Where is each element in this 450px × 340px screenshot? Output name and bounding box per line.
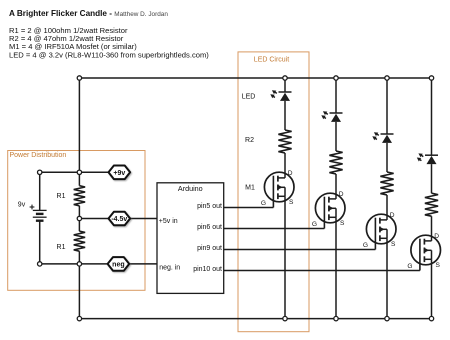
svg-text:pin10 out: pin10 out [193, 266, 222, 273]
resistor R1 (lower) [57, 231, 86, 251]
svg-text:pin5 out: pin5 out [197, 203, 222, 210]
svg-text:D: D [288, 170, 293, 177]
Arduino U1 [157, 183, 224, 294]
svg-text:-4.5v: -4.5v [111, 216, 127, 223]
node +9v tag [109, 166, 131, 180]
svg-text:G: G [407, 263, 412, 270]
LED LED3 [372, 132, 393, 143]
parts list text [9, 26, 209, 60]
node branch 2 top junction [334, 76, 338, 80]
MOSFET M1 (branch 1) [245, 170, 294, 207]
wire branch 2 LED cathode to R2 [335, 122, 337, 151]
node neg rail / R1 junction [77, 262, 81, 266]
node branch 1 bottom junction [283, 316, 287, 320]
svg-text:S: S [435, 262, 440, 269]
node branch 2 bottom junction [334, 316, 338, 320]
wire branch 3 drain lead [386, 195, 388, 220]
wire Arduino pin5 out to M1 gate (branch 1) [224, 207, 274, 209]
MOSFET M1 (branch 3) [363, 212, 396, 249]
wire top bus +9v rail [79, 77, 431, 79]
LED circuit box [238, 52, 309, 332]
svg-text:9v: 9v [18, 202, 26, 209]
wire Arduino pin9 out to M1 gate (branch 3) [224, 249, 376, 251]
wire branch 1 source lead to neg bus [284, 196, 286, 318]
svg-text:pin6 out: pin6 out [197, 224, 222, 231]
node branch 4 bottom junction [429, 316, 433, 320]
svg-text:LED Circuit: LED Circuit [254, 57, 289, 64]
wire Arduino pin10 out to M1 gate (branch 4) [224, 270, 420, 272]
svg-text:LED: LED [242, 94, 256, 101]
svg-text:S: S [289, 199, 294, 206]
svg-text:LED = 4 @ 3.2v (RL8-W110-360 f: LED = 4 @ 3.2v (RL8-W110-360 from superb… [9, 51, 209, 60]
wire branch 3 source lead to neg bus [386, 238, 388, 318]
wire branch 2 source lead to neg bus [335, 217, 337, 318]
resistor R2 (branch 4) [425, 193, 438, 216]
node +9v rail / R1 junction [77, 170, 81, 174]
wire branch 1 from +9v bus to LED anode [284, 78, 286, 92]
svg-text:R2: R2 [245, 137, 254, 144]
power distribution box [8, 151, 145, 291]
wire branch 1 drain lead [284, 153, 286, 178]
svg-text:A Brighter Flicker Candle - Ma: A Brighter Flicker Candle - Matthew D. J… [9, 9, 168, 18]
svg-text:S: S [340, 220, 345, 227]
svg-text:R1: R1 [57, 193, 66, 200]
svg-text:+9v: +9v [113, 170, 125, 177]
node neg tag [108, 257, 130, 271]
node bottom bus left end [77, 316, 81, 320]
svg-text:D: D [390, 212, 395, 219]
wire main vertical from top node through power box to bottom bus [78, 78, 80, 319]
battery 9v [18, 172, 47, 264]
svg-text:Arduino: Arduino [178, 184, 203, 193]
node top-left corner junction [77, 76, 81, 80]
resistor R2 (branch 2) [329, 151, 342, 174]
resistor R2 (branch 3) [380, 172, 393, 195]
svg-text:Power Distribution: Power Distribution [10, 152, 67, 159]
wire branch 4 drain lead [431, 216, 433, 241]
svg-text:neg: neg [112, 261, 124, 268]
MOSFET M1 (branch 2) [312, 191, 345, 228]
node branch 3 top junction [385, 76, 389, 80]
svg-text:S: S [391, 241, 396, 248]
node battery + junction [38, 170, 42, 174]
LED LED4 [417, 153, 438, 164]
svg-text:pin9 out: pin9 out [197, 245, 222, 252]
node branch 3 bottom junction [385, 316, 389, 320]
wire Arduino pin6 out to M1 gate (branch 2) [224, 228, 325, 230]
wire +9v row [40, 171, 112, 173]
wire -4.5v row to Arduino +5v in [79, 218, 157, 220]
LED LED1 [242, 90, 292, 101]
wire branch 4 source lead to neg bus [431, 259, 433, 318]
resistor R1 (upper) [57, 186, 86, 206]
wire branch 4 from +9v bus to LED anode [431, 78, 433, 155]
svg-text:+5v in: +5v in [159, 218, 178, 225]
node battery - junction [38, 262, 42, 266]
node branch 1 top junction [283, 76, 287, 80]
LED LED2 [321, 111, 342, 122]
svg-text:R1: R1 [57, 244, 66, 251]
wire bottom bus neg rail [79, 318, 431, 320]
svg-text:D: D [434, 233, 439, 240]
wire branch 1 LED cathode to R2 [284, 101, 286, 130]
wire branch 3 LED cathode to R2 [386, 143, 388, 172]
wire branch 2 drain lead [335, 174, 337, 199]
svg-text:M1: M1 [245, 185, 255, 192]
wire branch 4 LED cathode to R2 [431, 164, 433, 193]
MOSFET M1 (branch 4) [407, 233, 440, 270]
svg-text:G: G [363, 242, 368, 249]
wire branch 2 from +9v bus to LED anode [335, 78, 337, 113]
wire branch 3 from +9v bus to LED anode [386, 78, 388, 134]
title text [9, 9, 168, 18]
svg-text:G: G [261, 200, 266, 207]
svg-text:G: G [312, 221, 317, 228]
node -4.5v tag [109, 212, 131, 226]
svg-text:D: D [339, 191, 344, 198]
wire neg row to Arduino neg. in [40, 263, 157, 265]
svg-text:neg. in: neg. in [159, 264, 180, 271]
resistor R2 (branch 1) [245, 130, 292, 153]
node branch 4 top junction [429, 76, 433, 80]
node -4.5v tap junction [77, 216, 81, 220]
